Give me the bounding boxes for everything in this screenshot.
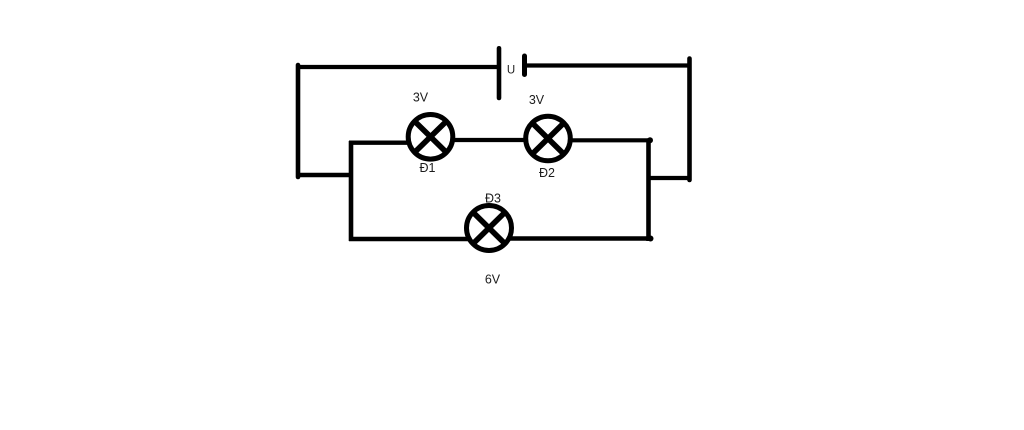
wire: bottom branch left segment (node to D3) bbox=[349, 237, 468, 241]
wire: right outer vertical bbox=[687, 59, 692, 181]
wire: middle branch right segment (D2 to node) bbox=[571, 138, 650, 142]
wire: right connector horizontal bbox=[648, 176, 691, 180]
svg-text:6V: 6V bbox=[485, 273, 501, 287]
battery U short plate bbox=[522, 56, 527, 75]
svg-text:3V: 3V bbox=[529, 93, 545, 107]
svg-text:U: U bbox=[507, 65, 515, 77]
svg-text:Đ3: Đ3 bbox=[485, 192, 501, 206]
battery U long plate bbox=[497, 48, 502, 98]
wire: left outer vertical bbox=[296, 65, 301, 177]
wire: top left horizontal (battery + to left) bbox=[296, 65, 498, 69]
svg-text:Đ1: Đ1 bbox=[420, 161, 436, 175]
lamp D2 (circle with X) bbox=[526, 116, 571, 161]
svg-text:Đ2: Đ2 bbox=[539, 166, 555, 180]
wire: middle branch left segment (node to D1) bbox=[349, 140, 408, 144]
junction dot at node bottom right bbox=[648, 236, 654, 242]
junction dot at node between D2 branch and right vertical bbox=[647, 137, 653, 143]
wire: middle branch center segment (D1 to D2) bbox=[452, 138, 526, 142]
wire: bottom branch right segment (D3 to node) bbox=[511, 236, 651, 240]
svg-text:3V: 3V bbox=[413, 91, 429, 105]
wire: top right horizontal (battery - to right) bbox=[527, 63, 690, 67]
lamp D1 (circle with X) bbox=[408, 115, 453, 160]
wire: middle-left vertical bbox=[349, 141, 354, 241]
wire: middle-right vertical bbox=[646, 139, 651, 241]
lamp D3 (circle with X) bbox=[467, 206, 512, 251]
wire: left connector horizontal bbox=[296, 173, 351, 177]
